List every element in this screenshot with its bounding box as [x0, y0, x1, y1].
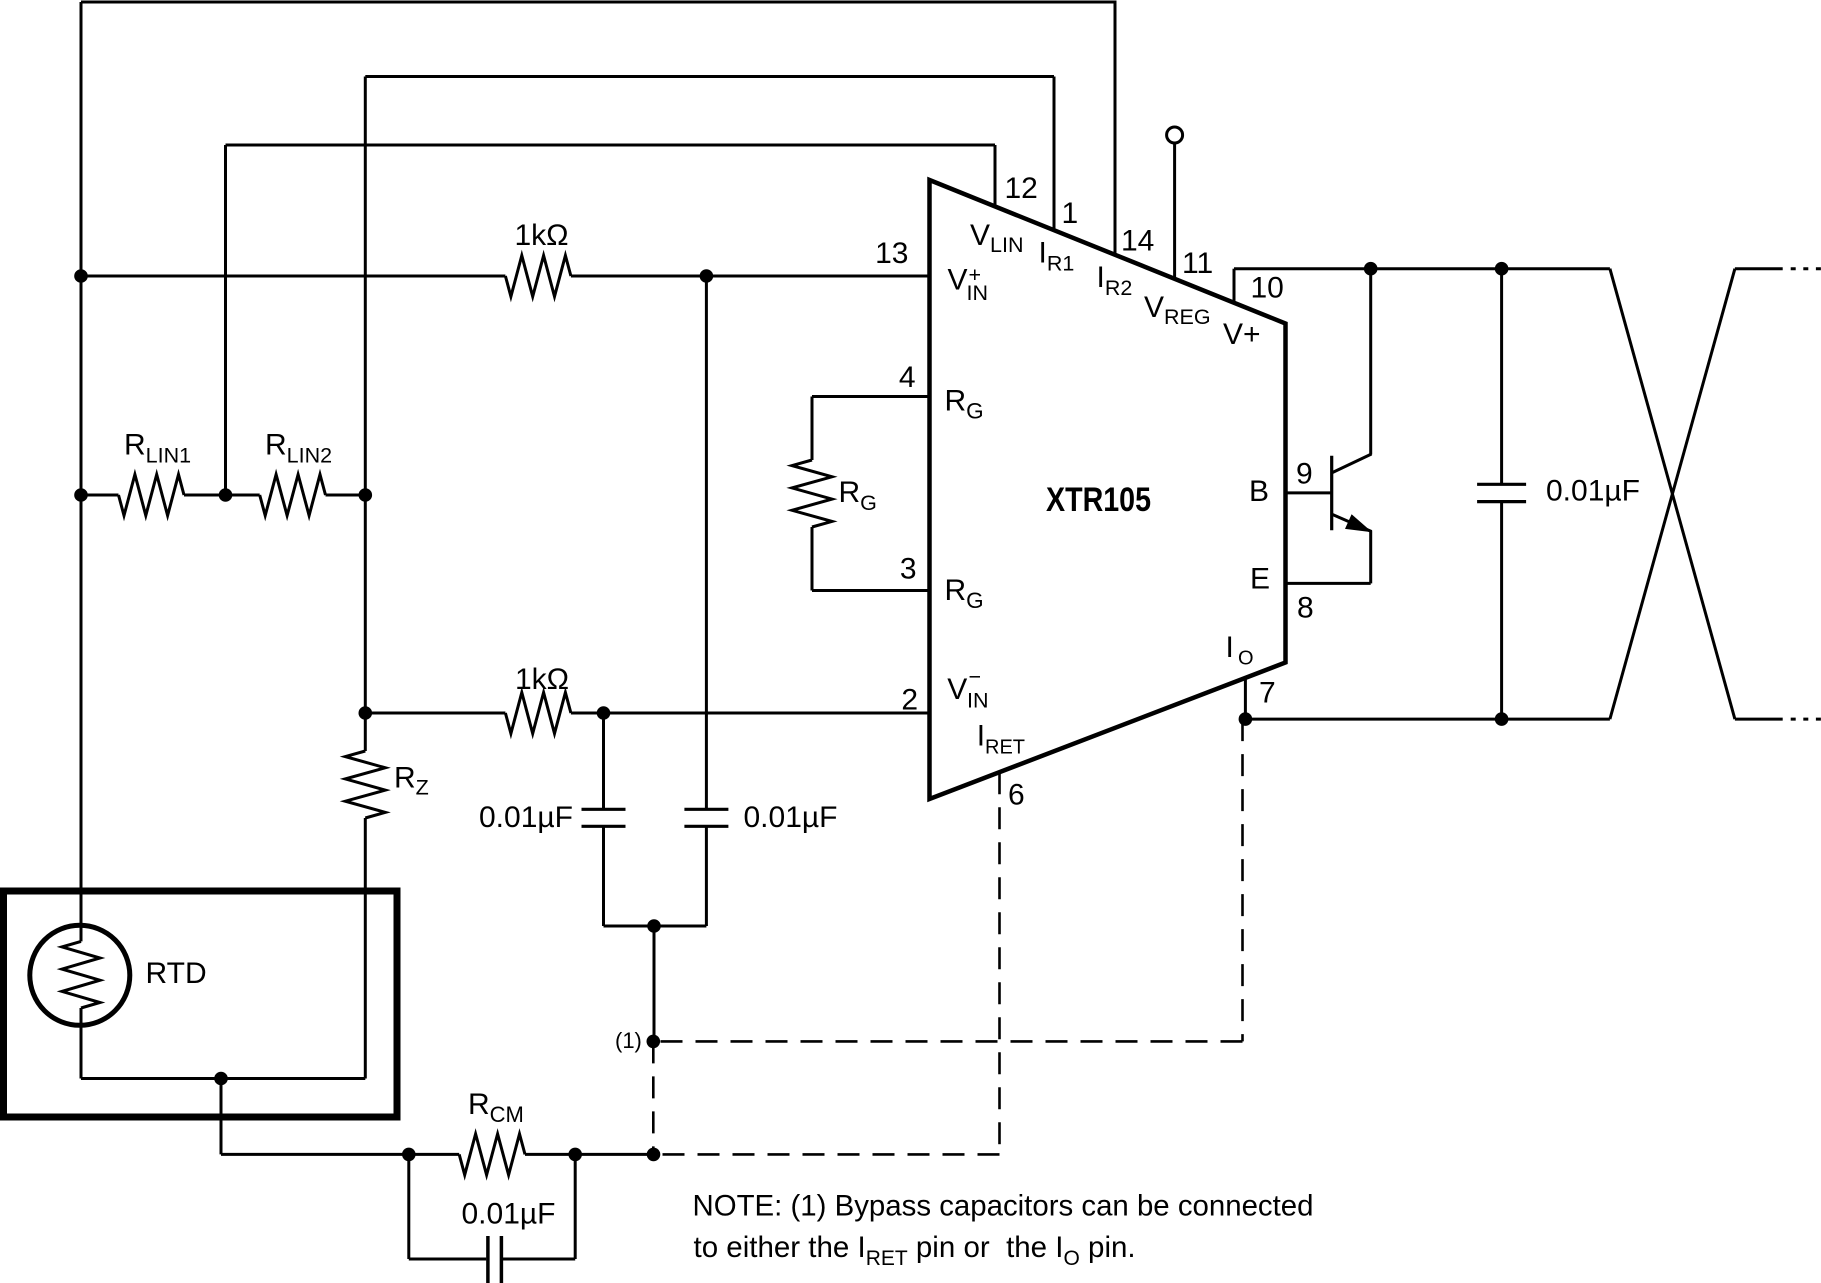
wire caps join to node 1	[653, 926, 656, 1041]
resistor R_Z	[345, 751, 385, 818]
svg-text:(1): (1)	[615, 1028, 642, 1053]
svg-text:IN: IN	[967, 281, 989, 305]
wire V_IN- from RZ node to 1k resistor	[365, 712, 505, 715]
wire cap top lead	[1500, 269, 1503, 485]
node I_RET tie	[647, 1148, 661, 1162]
svg-text:7: 7	[1259, 677, 1276, 710]
svg-text:I: I	[1226, 631, 1234, 664]
wire R_G left lower	[811, 527, 814, 591]
svg-text:RTD: RTD	[146, 957, 207, 990]
wire bottom cap right run	[503, 1258, 575, 1261]
svg-text:4: 4	[899, 361, 916, 394]
wire RTD return drop	[220, 1079, 223, 1155]
wire R_G left upper	[811, 397, 814, 461]
wire R_CM right lead	[525, 1153, 654, 1156]
wire third-rail vertical to RLIN junction	[224, 145, 227, 495]
svg-text:11: 11	[1182, 247, 1213, 280]
transistor Q1 emitter arrow	[1345, 514, 1372, 532]
node RZ top junction	[359, 706, 373, 720]
svg-text:B: B	[1249, 475, 1269, 508]
wire cap bottom lead	[1500, 502, 1503, 719]
wire third rail to pin 12	[226, 144, 996, 147]
wire twisted pair cross 2	[1610, 269, 1735, 719]
RTD sensor box	[4, 891, 398, 1117]
wire RTD bottom horizontal	[81, 1077, 365, 1080]
node V_IN- junction	[597, 706, 611, 720]
RTD circle	[30, 925, 130, 1025]
wire left vertical bus	[80, 2, 83, 926]
svg-text:12: 12	[1005, 172, 1038, 205]
svg-text:1kΩ: 1kΩ	[514, 219, 568, 252]
wire bottom cap right leg	[574, 1154, 577, 1259]
capacitor 0.01uF bottom plates	[486, 1236, 490, 1283]
wire collector rail	[1234, 267, 1610, 270]
svg-text:IN: IN	[967, 689, 989, 713]
wire pin 3 stub	[812, 589, 930, 592]
wire pin 14 vertical drop	[1114, 1, 1117, 255]
node R_LIN right	[359, 488, 373, 502]
wire R_CM left lead	[409, 1153, 459, 1156]
wire dashed I_O horizontal	[653, 1040, 1242, 1043]
node R_LIN mid	[219, 488, 233, 502]
node R_LIN left	[74, 488, 88, 502]
wire cap2 lower lead	[705, 826, 708, 926]
wire 1k to pin 13	[571, 275, 930, 278]
wire vertical below RZ into RTD box	[364, 818, 367, 1079]
wire V_REG terminal drop	[1173, 143, 1176, 279]
wire cap1 upper lead	[602, 713, 605, 809]
wire dashed node1 drop	[652, 1041, 655, 1154]
wire 1k to pin 2	[571, 712, 930, 715]
wire RTD bottom lead	[80, 1008, 83, 1079]
wire R_LIN row left	[81, 494, 119, 497]
wire top-right continuation	[1735, 267, 1783, 270]
node R_CM left	[402, 1148, 416, 1162]
node I_O rail	[1239, 712, 1253, 726]
svg-text:13: 13	[875, 237, 908, 270]
svg-text:6: 6	[1008, 778, 1025, 811]
wire dashed I_O drop	[1241, 719, 1244, 1041]
wire pin 4 stub	[812, 395, 930, 398]
wire pin 1 vertical drop	[1053, 77, 1056, 231]
wire bottom-right continuation	[1735, 718, 1783, 721]
svg-text:1kΩ: 1kΩ	[515, 663, 569, 696]
wire bottom cap left run	[409, 1258, 487, 1261]
terminal circle V_REG	[1167, 127, 1183, 143]
svg-text:14: 14	[1121, 225, 1154, 258]
svg-text:0.01µF: 0.01µF	[479, 801, 573, 834]
capacitor 0.01uF left plates	[582, 808, 626, 811]
resistor 1kOhm lower	[505, 693, 571, 734]
node junction V_IN+ / bypass cap	[700, 269, 714, 283]
node RTD return	[214, 1072, 228, 1086]
wire top rail from node A to pin 14	[81, 1, 1115, 4]
resistor RTD zigzag	[62, 941, 100, 1008]
resistor R_G	[792, 460, 832, 527]
wire joining caps	[604, 925, 707, 928]
svg-text:0.01µF: 0.01µF	[1546, 475, 1640, 508]
resistor R_LIN2	[260, 475, 326, 516]
svg-text:0.01µF: 0.01µF	[744, 801, 838, 834]
node R_CM right	[568, 1148, 582, 1162]
wire V_IN+ from node A to 1k resistor	[81, 275, 505, 278]
svg-text:−: −	[969, 665, 982, 689]
svg-text:10: 10	[1251, 272, 1284, 305]
wire dashed I_RET drop	[998, 772, 1001, 1154]
svg-text:V+: V+	[1223, 318, 1261, 351]
transistor Q1 collector lead	[1369, 269, 1372, 455]
svg-text:I: I	[977, 720, 985, 753]
svg-text:8: 8	[1297, 592, 1314, 625]
svg-text:XTR105: XTR105	[1046, 481, 1151, 519]
wire cap drop from V_IN+ node	[705, 276, 708, 809]
op-amp block XTR105 trapezoid	[930, 180, 1286, 799]
node bottom rail / cap	[1495, 712, 1509, 726]
node caps join	[647, 919, 661, 933]
wire R_LIN2 to vertical	[326, 494, 366, 497]
svg-text:E: E	[1250, 563, 1270, 596]
transistor Q1 emitter lead	[1333, 515, 1372, 532]
wire dashed I_RET horizontal	[654, 1153, 1000, 1156]
node collector rail / transistor	[1364, 262, 1378, 276]
node (1)	[647, 1035, 661, 1049]
wire pin 10 stub	[1233, 269, 1236, 303]
wire to R_CM	[221, 1153, 409, 1156]
resistor 1kOhm upper	[505, 256, 571, 297]
svg-text:3: 3	[900, 553, 917, 586]
wire bottom rail	[1245, 718, 1610, 721]
wire pin 12 vertical drop	[994, 145, 997, 206]
wire vertical from second rail through RLIN2 node	[364, 77, 367, 752]
svg-text:9: 9	[1296, 458, 1313, 491]
wire base stub pin 9	[1286, 491, 1332, 494]
svg-text:1: 1	[1062, 197, 1079, 230]
wire pin 7 stub	[1244, 678, 1247, 719]
wire cap1 lower lead	[602, 826, 605, 926]
svg-text:NOTE: (1) Bypass capacitors ca: NOTE: (1) Bypass capacitors can be conne…	[693, 1190, 1314, 1223]
resistor R_CM	[459, 1134, 525, 1175]
wire bottom cap left leg	[407, 1154, 410, 1259]
node collector rail / cap	[1495, 262, 1509, 276]
svg-text:V: V	[948, 264, 968, 297]
wire emitter to pin 8	[1286, 582, 1371, 585]
wire second rail to pin 1	[365, 75, 1054, 78]
svg-text:RET: RET	[985, 737, 1025, 759]
wire into RTD circle	[80, 926, 83, 942]
wire twisted pair cross 1	[1610, 269, 1735, 719]
svg-text:V: V	[947, 673, 967, 706]
resistor R_LIN1	[119, 475, 185, 516]
transistor Q1 base bar	[1330, 456, 1333, 531]
wire between R_LIN1 and R_LIN2	[184, 494, 260, 497]
capacitor 0.01uF mid plates	[684, 808, 728, 811]
node A upper-left	[74, 269, 88, 283]
svg-text:O: O	[1238, 648, 1254, 670]
capacitor 0.01uF output plates	[1477, 483, 1526, 486]
svg-text:0.01µF: 0.01µF	[462, 1198, 556, 1231]
svg-text:2: 2	[901, 684, 918, 717]
